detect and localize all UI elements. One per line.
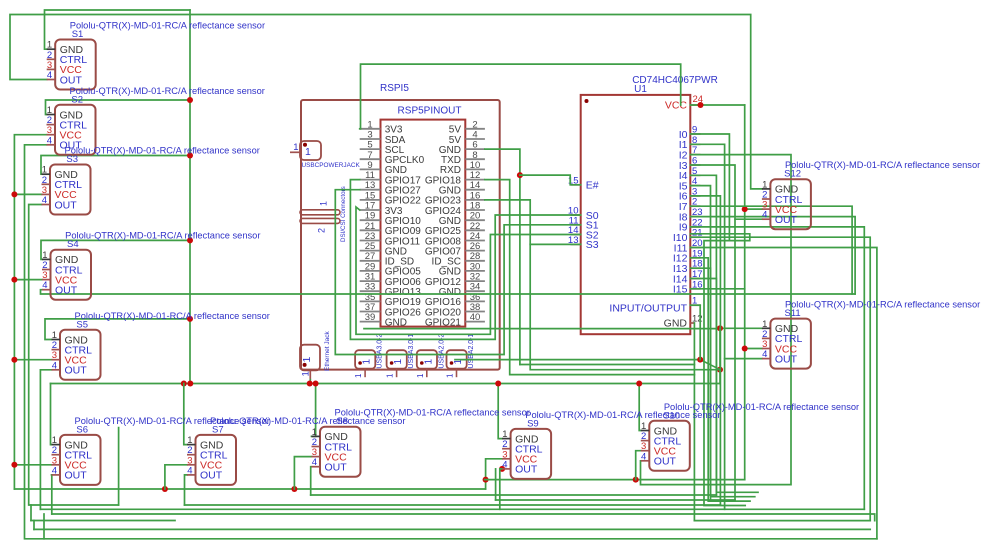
wire S6 OUT down xyxy=(51,475,53,514)
svg-text:Pololu-QTR(X)-MD-01-RC/A refle: Pololu-QTR(X)-MD-01-RC/A reflectance sen… xyxy=(75,311,270,321)
junction S5 VCC xyxy=(11,357,17,363)
wire S8 GND xyxy=(312,384,316,437)
wire I12 route xyxy=(690,258,750,501)
wire Ethernet GND stub xyxy=(309,380,311,384)
U1 pins xyxy=(568,94,703,330)
multiplexer U1 CD74HC4067PWR xyxy=(581,95,691,334)
svg-text:DSI/CSI Connectors: DSI/CSI Connectors xyxy=(340,186,347,242)
wire 3V3 pin17 to S2 xyxy=(356,207,581,334)
svg-text:Pololu-QTR(X)-MD-01-RC/A refle: Pololu-QTR(X)-MD-01-RC/A reflectance sen… xyxy=(65,146,260,156)
svg-text:OUT: OUT xyxy=(654,456,677,468)
svg-text:Pololu-QTR(X)-MD-01-RC/A refle: Pololu-QTR(X)-MD-01-RC/A reflectance sen… xyxy=(664,402,859,412)
USB connector USBA3.0-2 xyxy=(354,333,384,378)
junction GND vert xyxy=(187,381,193,387)
svg-text:4: 4 xyxy=(42,195,47,206)
svg-text:GPIO21: GPIO21 xyxy=(425,317,462,328)
svg-text:1: 1 xyxy=(301,357,313,363)
wire I11 right-down xyxy=(690,248,877,539)
RSP5PINOUT pins xyxy=(360,119,485,328)
wire I10 right-down xyxy=(690,237,870,520)
svg-text:S11: S11 xyxy=(784,308,800,319)
wire S11 GND feed xyxy=(720,327,762,329)
wire S3 OUT down to y=505 west xyxy=(29,205,119,506)
junction S4 VCC xyxy=(11,277,17,283)
wire S7 GND xyxy=(184,384,187,445)
sensor S1 Pololu-QTR(X)-MD-01-RC/A reflectance sensor xyxy=(47,21,265,90)
svg-text:S1: S1 xyxy=(72,29,84,40)
junction S7 GND xyxy=(181,381,187,387)
wire I14 route xyxy=(690,279,758,493)
wire bottom y=505 east xyxy=(185,504,721,506)
svg-text:Pololu-QTR(X)-MD-01-RC/A refle: Pololu-QTR(X)-MD-01-RC/A reflectance sen… xyxy=(70,86,265,96)
svg-text:GND: GND xyxy=(385,317,407,328)
wire GND vertical x=190 xyxy=(189,10,191,384)
wire branch x=118.6 xyxy=(118,428,120,505)
sensor S2 Pololu-QTR(X)-MD-01-RC/A reflectance sensor xyxy=(47,86,265,155)
sensor S3 Pololu-QTR(X)-MD-01-RC/A reflectance sensor xyxy=(42,146,260,215)
wire S3 VCC feed xyxy=(14,193,41,195)
wire 3V3 pin1 to VCC xyxy=(361,64,681,129)
wire S3 select feed xyxy=(530,243,581,245)
svg-text:1: 1 xyxy=(301,371,312,376)
junction S8 GND xyxy=(313,381,319,387)
USB connector USBA2.0-1 xyxy=(446,333,476,378)
wire S11 OUT to bus xyxy=(725,358,762,360)
wire I9 right-down xyxy=(690,227,864,509)
svg-text:S3: S3 xyxy=(66,154,78,165)
wire S11 VCC feed xyxy=(745,348,762,350)
junction IO node xyxy=(697,357,703,363)
junction S9 GND xyxy=(495,381,501,387)
wire I2 to S10 OUT xyxy=(641,155,792,485)
svg-text:S7: S7 xyxy=(212,424,224,435)
svg-text:4: 4 xyxy=(641,451,646,462)
wire S9 GND xyxy=(498,384,502,439)
wire S2 GND xyxy=(46,100,191,115)
wire GPIO18 route xyxy=(485,180,695,375)
svg-text:4: 4 xyxy=(47,135,52,146)
svg-text:S6: S6 xyxy=(76,424,88,435)
svg-text:2: 2 xyxy=(317,228,327,233)
svg-text:S9: S9 xyxy=(527,418,539,429)
svg-text:USBCPOWERJACK: USBCPOWERJACK xyxy=(302,162,361,169)
svg-text:E#: E# xyxy=(586,180,599,192)
junction S9 OUT xyxy=(499,466,505,472)
junction S3 GND xyxy=(187,153,193,159)
wire S3 GND xyxy=(41,156,190,175)
junction S6 VCC xyxy=(11,462,17,468)
wire S8 VCC xyxy=(294,457,311,489)
svg-text:S8: S8 xyxy=(336,416,348,427)
svg-text:1: 1 xyxy=(446,373,455,378)
svg-text:S5: S5 xyxy=(76,319,88,330)
svg-text:4: 4 xyxy=(52,465,57,476)
wire bottom y=514 with drop xyxy=(52,514,875,521)
wire S4 GND xyxy=(41,240,190,259)
wire bottom y=520.5 xyxy=(31,520,175,522)
sensor S4 Pololu-QTR(X)-MD-01-RC/A reflectance sensor xyxy=(42,231,260,300)
svg-text:Pololu-QTR(X)-MD-01-RC/A refle: Pololu-QTR(X)-MD-01-RC/A reflectance sen… xyxy=(335,408,530,418)
wire jog bracket route xyxy=(690,234,750,506)
wire S9 OUT second drop xyxy=(495,469,497,500)
wire VCC bottom-left y=489 xyxy=(14,488,485,490)
svg-text:OUT: OUT xyxy=(60,74,83,86)
wire U1 VCC pin24 xyxy=(690,104,744,106)
wire S6 VCC feed xyxy=(14,464,51,466)
sensor S8 Pololu-QTR(X)-MD-01-RC/A reflectance sensor xyxy=(312,408,530,477)
wire GND to S11 y=329.8 xyxy=(364,328,720,330)
wire GND y=364.5 xyxy=(520,364,695,366)
svg-text:4: 4 xyxy=(502,459,507,470)
junction S10 GND xyxy=(636,381,642,387)
wire I13 route xyxy=(690,268,755,497)
wire riser x=31 xyxy=(30,505,32,521)
wire GND bus y=383.5 xyxy=(51,383,720,385)
sensor S11 Pololu-QTR(X)-MD-01-RC/A reflectance sensor xyxy=(762,300,980,369)
svg-text:Ethernet Jack: Ethernet Jack xyxy=(324,331,331,371)
junction S5 GND xyxy=(187,316,193,322)
svg-text:S12: S12 xyxy=(784,169,801,180)
wire to E# xyxy=(520,175,581,185)
svg-text:S2: S2 xyxy=(71,94,83,105)
wire S5 GND xyxy=(45,319,190,340)
svg-text:1: 1 xyxy=(354,373,363,378)
junction S11 VCC xyxy=(742,346,748,352)
svg-text:1: 1 xyxy=(393,359,404,365)
svg-text:4: 4 xyxy=(187,465,192,476)
USB connector USBA2.0-2 xyxy=(416,333,446,378)
junction S4 GND xyxy=(187,237,193,243)
wire IO line y=359.6 xyxy=(455,359,700,361)
wire GPIO23 down route xyxy=(485,200,720,370)
wire S6 GND xyxy=(51,384,52,445)
svg-text:1: 1 xyxy=(362,359,373,365)
svg-text:OUT: OUT xyxy=(55,285,78,297)
svg-text:1: 1 xyxy=(386,373,395,378)
wire VCC right vertical x=744.7 xyxy=(744,105,746,480)
wire I5 down xyxy=(690,186,710,500)
svg-text:40: 40 xyxy=(470,312,481,323)
junction GND-E# xyxy=(517,172,523,178)
wire riser x=34 xyxy=(33,521,35,530)
junction S12 VCC xyxy=(742,206,748,212)
RSP5PINOUT connector J1 xyxy=(381,120,466,327)
junction VCC cross xyxy=(483,477,489,483)
svg-text:OUT: OUT xyxy=(775,214,798,226)
wire S2 OUT outer ring xyxy=(25,145,877,539)
wire pin1 stub link xyxy=(359,128,362,130)
wire I8 to S4 OUT line xyxy=(690,217,855,294)
svg-text:39: 39 xyxy=(365,312,376,323)
wire VCC bottom y=479.6 xyxy=(485,479,745,481)
svg-text:OUT: OUT xyxy=(65,470,88,482)
svg-text:INPUT/OUTPUT: INPUT/OUTPUT xyxy=(609,303,687,315)
sensor S6 Pololu-QTR(X)-MD-01-RC/A reflectance sensor xyxy=(52,416,270,485)
wire S1 OUT top route to S12 GND xyxy=(10,15,762,189)
svg-text:1: 1 xyxy=(305,146,311,158)
svg-text:RSP5PINOUT: RSP5PINOUT xyxy=(398,106,462,117)
wire S10 GND xyxy=(639,384,641,431)
junction diagonal low xyxy=(717,367,723,373)
wire S4 OUT long line xyxy=(41,290,856,294)
svg-text:4: 4 xyxy=(312,457,317,468)
wire I15 stub-out xyxy=(690,288,744,290)
wire S8 OUT down xyxy=(310,467,313,495)
DSI/CSI connectors xyxy=(300,186,347,242)
wire I4 down xyxy=(690,175,716,495)
Ethernet jack xyxy=(300,331,331,380)
wire S10 VCC riser xyxy=(636,451,641,480)
junction S2 GND xyxy=(187,97,193,103)
wire bottom y=529.4 xyxy=(34,528,870,530)
wire riser x=44 xyxy=(43,514,45,539)
wire S4 VCC feed xyxy=(14,279,42,281)
svg-text:U1: U1 xyxy=(634,84,647,95)
wire x=720 vertical xyxy=(719,328,721,369)
wire S7 VCC xyxy=(165,465,187,489)
USBCPOWERJACK connector xyxy=(290,141,360,169)
USB connector USBA3.0-1 xyxy=(386,333,416,378)
wire bottom y=520.6 east xyxy=(694,520,870,522)
svg-text:OUT: OUT xyxy=(775,353,798,365)
wire S5 VCC feed xyxy=(14,359,51,361)
wire U1 GND down x=694.4 xyxy=(693,323,695,521)
svg-text:Pololu-QTR(X)-MD-01-RC/A refle: Pololu-QTR(X)-MD-01-RC/A reflectance sen… xyxy=(785,160,980,170)
wire bottom y=509.3 xyxy=(40,508,864,510)
wire diagonal segment xyxy=(700,360,720,370)
svg-text:OUT: OUT xyxy=(515,464,538,476)
junction S11 GND xyxy=(717,325,723,331)
svg-text:OUT: OUT xyxy=(200,470,223,482)
junction S10 VCC xyxy=(633,477,639,483)
wire S12 OUT to bus xyxy=(735,218,762,220)
junction Ethernet GND xyxy=(307,381,313,387)
wire bottom y=495 xyxy=(311,494,717,496)
wire bottom y=500 xyxy=(496,499,735,501)
svg-text:4: 4 xyxy=(47,70,52,81)
svg-text:RSPI5: RSPI5 xyxy=(380,83,409,94)
svg-text:1: 1 xyxy=(423,359,434,365)
junction S3 VCC xyxy=(11,191,17,197)
wire I3 down xyxy=(690,165,735,500)
svg-text:VCC: VCC xyxy=(665,100,688,112)
wire I7 right-down xyxy=(690,206,852,294)
wire IO pin stub link xyxy=(690,304,700,306)
sensor S12 Pololu-QTR(X)-MD-01-RC/A reflectance sensor xyxy=(762,160,980,229)
svg-text:S4: S4 xyxy=(67,239,79,250)
svg-text:Pololu-QTR(X)-MD-01-RC/A refle: Pololu-QTR(X)-MD-01-RC/A reflectance sen… xyxy=(65,231,260,241)
wire S5 OUT down xyxy=(40,370,51,510)
svg-text:S10: S10 xyxy=(663,410,680,421)
sensor S9 Pololu-QTR(X)-MD-01-RC/A reflectance sensor xyxy=(502,410,720,479)
wire S12 VCC feed xyxy=(745,208,762,210)
wire S9 VCC riser xyxy=(486,459,503,489)
wire GPIO27 to S1 xyxy=(335,190,580,355)
wire GND pin6 down xyxy=(485,149,520,364)
wire I0 down to bracket xyxy=(690,134,729,241)
RSPI5 outer box xyxy=(301,100,500,370)
svg-text:4: 4 xyxy=(762,210,767,221)
svg-text:4: 4 xyxy=(52,360,57,371)
junction VCC pin24 xyxy=(698,102,704,108)
svg-text:OUT: OUT xyxy=(325,462,348,474)
sensor S7 Pololu-QTR(X)-MD-01-RC/A reflectance sensor xyxy=(187,416,405,485)
wire IO pin down xyxy=(699,305,701,359)
svg-text:4: 4 xyxy=(42,280,47,291)
wire S9 OUT down xyxy=(500,469,502,509)
wire VCC left bus xyxy=(14,135,46,489)
wire S1 GND up-over xyxy=(45,10,191,49)
svg-text:Pololu-QTR(X)-MD-01-RC/A refle: Pololu-QTR(X)-MD-01-RC/A reflectance sen… xyxy=(70,21,265,31)
wire I1 down xyxy=(690,144,724,509)
svg-text:1: 1 xyxy=(416,373,425,378)
svg-text:4: 4 xyxy=(762,349,767,360)
sensor S5 Pololu-QTR(X)-MD-01-RC/A reflectance sensor xyxy=(52,311,270,380)
svg-text:OUT: OUT xyxy=(55,199,78,211)
sensor S10 Pololu-QTR(X)-MD-01-RC/A reflectance sensor xyxy=(641,402,859,471)
wire I6 down xyxy=(690,196,720,505)
junction S8 VCC xyxy=(291,486,297,492)
svg-text:1: 1 xyxy=(293,142,298,153)
svg-text:S3: S3 xyxy=(586,239,599,251)
wire x=720 to GND bus xyxy=(719,370,721,384)
wire S7 OUT down xyxy=(185,475,188,505)
svg-text:1: 1 xyxy=(319,201,329,206)
svg-text:OUT: OUT xyxy=(65,365,88,377)
junction S7 VCC xyxy=(162,486,168,492)
svg-text:Pololu-QTR(X)-MD-01-RC/A refle: Pololu-QTR(X)-MD-01-RC/A reflectance sen… xyxy=(785,300,980,310)
svg-text:GND: GND xyxy=(664,318,688,330)
wire GPIO17 to S0 xyxy=(350,180,580,340)
